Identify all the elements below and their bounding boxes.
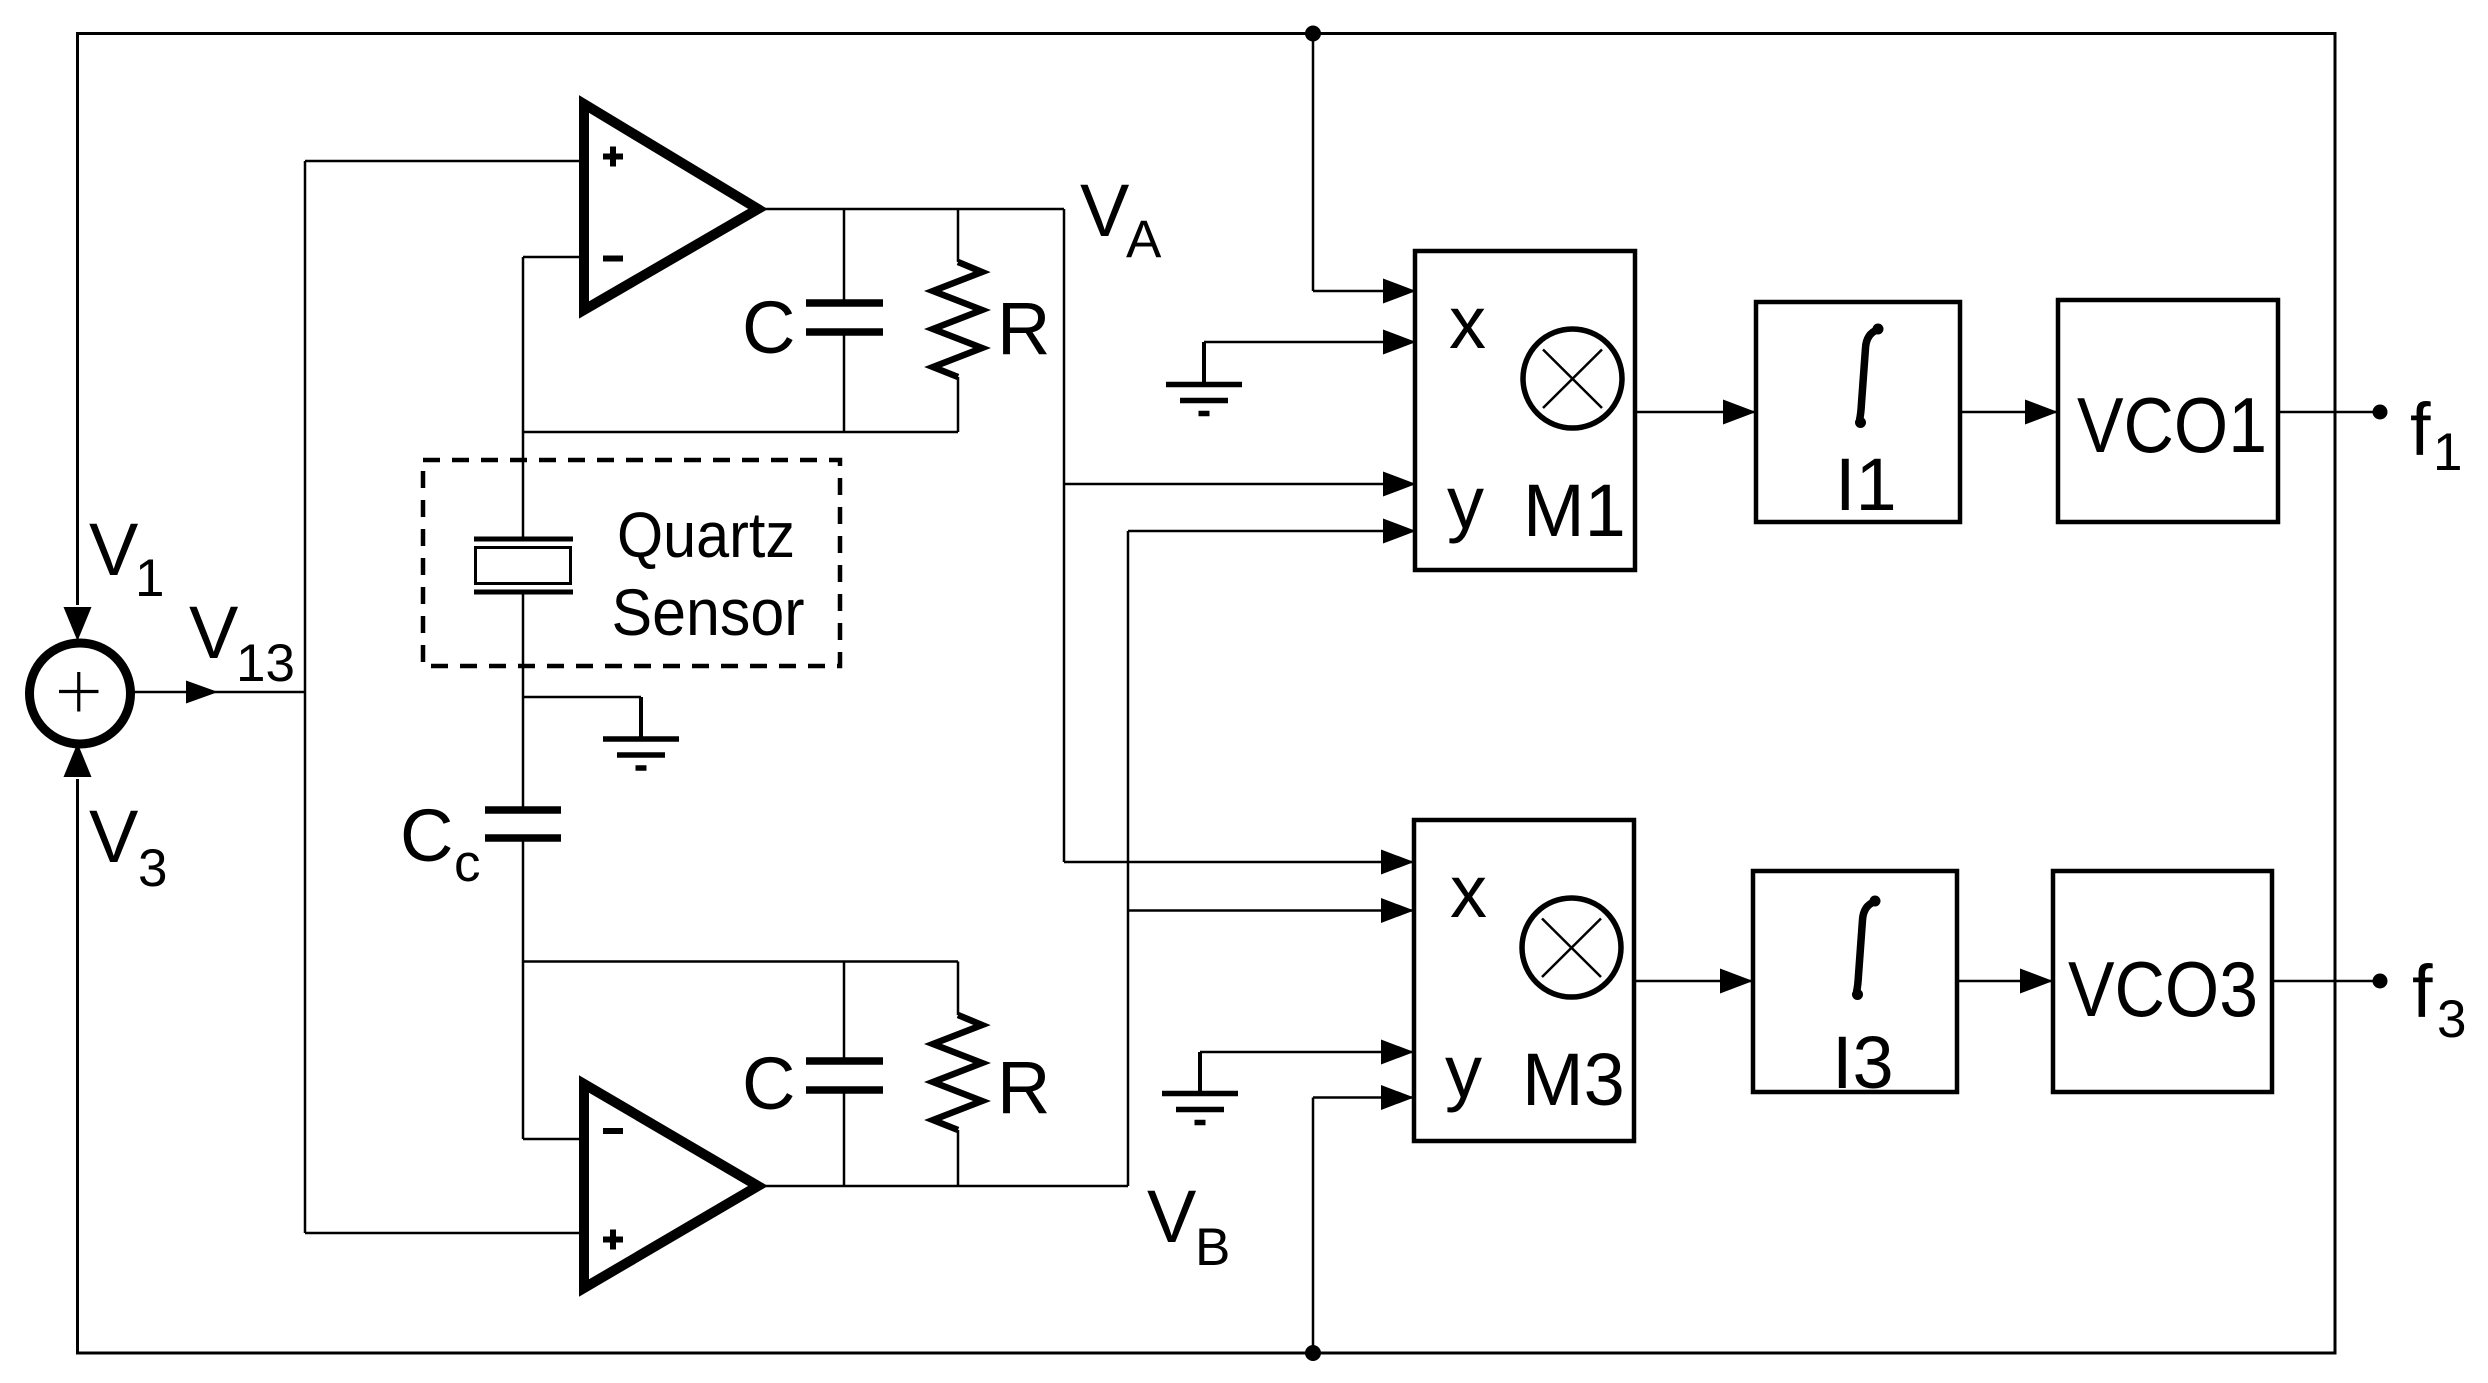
svg-text:C: C [742, 1042, 795, 1125]
svg-text:C: C [400, 794, 453, 877]
svg-text:f: f [2410, 388, 2431, 471]
svg-text:1: 1 [135, 549, 164, 608]
svg-text:y: y [1447, 461, 1484, 544]
svg-text:V: V [1147, 1175, 1197, 1258]
svg-text:x: x [1449, 281, 1486, 364]
svg-text:VCO1: VCO1 [2077, 381, 2267, 469]
svg-text:c: c [454, 834, 481, 893]
svg-text:1: 1 [2433, 423, 2462, 482]
svg-text:Sensor: Sensor [612, 575, 805, 649]
svg-text:R: R [997, 1046, 1050, 1129]
svg-text:M3: M3 [1522, 1038, 1625, 1121]
svg-text:A: A [1126, 210, 1162, 269]
svg-text:V: V [89, 795, 139, 878]
svg-text:f: f [2412, 950, 2433, 1033]
svg-text:V: V [189, 591, 239, 674]
svg-text:I1: I1 [1835, 443, 1897, 526]
svg-text:x: x [1450, 850, 1487, 933]
svg-text:V: V [89, 508, 139, 591]
svg-text:I3: I3 [1832, 1021, 1894, 1104]
svg-text:V: V [1080, 169, 1130, 252]
svg-text:R: R [997, 287, 1050, 370]
svg-text:M1: M1 [1523, 469, 1626, 552]
svg-text:13: 13 [236, 634, 295, 693]
svg-text:3: 3 [138, 839, 167, 898]
svg-text:3: 3 [2437, 990, 2466, 1049]
svg-text:Quartz: Quartz [617, 499, 795, 571]
svg-text:VCO3: VCO3 [2068, 945, 2258, 1033]
svg-text:B: B [1195, 1218, 1230, 1277]
svg-text:y: y [1445, 1030, 1482, 1113]
svg-text:C: C [742, 286, 795, 369]
